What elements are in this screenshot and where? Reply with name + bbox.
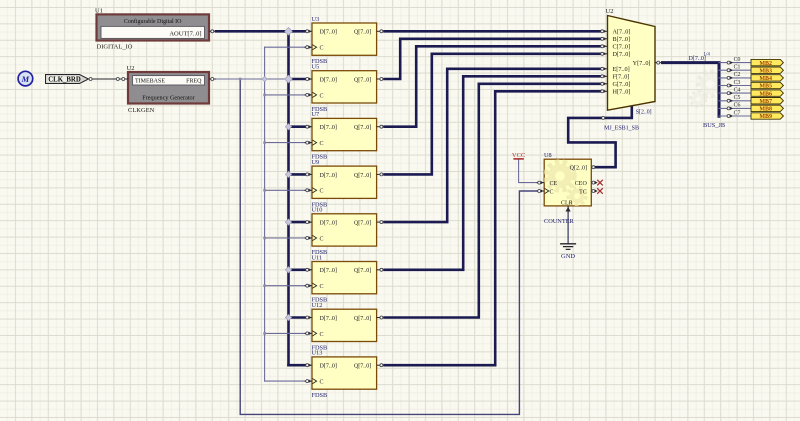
svg-text:U5: U5 <box>312 64 320 71</box>
wire bus tap C4 <box>719 92 751 94</box>
pin TC of counter (no connect) <box>591 190 597 192</box>
sheet symbol U1 Configurable Digital IO <box>95 8 216 51</box>
wire bus tap C3 <box>719 85 751 87</box>
svg-text:CLR: CLR <box>561 200 573 206</box>
pin Q of U5 <box>377 78 385 80</box>
svg-text:C: C <box>320 189 324 195</box>
wire clock net branch to counter C (long loop) <box>240 79 536 414</box>
pin D of U7 <box>305 126 313 128</box>
svg-text:C: C <box>320 380 324 386</box>
wire clock tap to register U12 C <box>265 332 305 334</box>
svg-text:MB9: MB9 <box>759 114 772 120</box>
wire D-bus tap to register U10 D <box>289 221 305 224</box>
pin C of counter <box>537 190 545 192</box>
wire counter CLR to GND <box>567 206 569 244</box>
junction / pin of tap C0 <box>727 61 730 64</box>
pin H of mux <box>600 90 608 92</box>
wire bus tap C6 <box>719 107 751 109</box>
svg-text:MB4: MB4 <box>759 76 772 82</box>
pin CLR of counter <box>567 206 569 213</box>
hierarchy logo icon <box>18 71 33 86</box>
ground GND <box>560 244 576 260</box>
wire bus tap C2 <box>719 77 751 79</box>
svg-text:F[7..0]: F[7..0] <box>613 74 630 81</box>
wire bus tap C0 <box>719 62 751 64</box>
svg-text:MB6: MB6 <box>759 91 772 97</box>
wire clock tap to register U3 C <box>265 46 305 48</box>
svg-text:D[7..0]: D[7..0] <box>320 316 337 322</box>
svg-text:E[7..0]: E[7..0] <box>613 66 630 73</box>
junction clock tap U7 <box>263 141 266 144</box>
svg-text:Q[7..0]: Q[7..0] <box>354 77 371 83</box>
junction clock tap U11 <box>263 284 266 287</box>
port MB4 <box>751 75 783 81</box>
power VCC <box>512 152 525 159</box>
pin D of mux <box>600 53 608 55</box>
wire D-bus tap to register U12 D <box>289 316 305 319</box>
svg-text:FREQ: FREQ <box>186 79 202 85</box>
svg-text:U8: U8 <box>544 152 552 159</box>
junction clock tap U9 <box>263 189 266 192</box>
wire bus tap C5 <box>719 100 751 102</box>
multiplexer U2 MJ_ESB1_SB <box>600 8 663 131</box>
pin C of U7 <box>305 142 313 144</box>
wire D-bus vertical trunk <box>287 31 290 365</box>
svg-text:FDSB: FDSB <box>312 392 328 399</box>
svg-text:CLK_BRD: CLK_BRD <box>48 77 81 84</box>
svg-text:U11: U11 <box>312 254 323 261</box>
register U10 FDSB <box>305 207 385 256</box>
svg-text:DIGITAL_IO: DIGITAL_IO <box>97 44 133 51</box>
wire U11 Q to mux F <box>385 76 600 269</box>
pin C of U3 <box>305 46 313 48</box>
port MB5 <box>751 82 783 88</box>
svg-text:C4: C4 <box>734 87 741 93</box>
pin CEO of counter (no connect) <box>591 182 597 184</box>
register U5 FDSB <box>305 64 385 113</box>
pin FREQ of U2 <box>209 78 216 80</box>
pin C of U9 <box>305 189 313 191</box>
wire D-bus tap to register U5 D <box>289 78 305 81</box>
junction / pin of tap C4 <box>727 92 730 95</box>
pin AOUT of U1 <box>209 30 216 32</box>
svg-text:C3: C3 <box>734 80 741 86</box>
svg-text:A[7..0]: A[7..0] <box>613 29 631 36</box>
pin F of mux <box>600 75 608 77</box>
svg-text:CLKGEN: CLKGEN <box>128 107 155 114</box>
pin B of mux <box>600 38 608 40</box>
wire clock net vertical to register C pins <box>264 47 266 381</box>
port MB9 <box>751 113 783 119</box>
junction / pin of tap C3 <box>727 84 730 87</box>
svg-text:D[7..0]: D[7..0] <box>320 30 337 36</box>
svg-text:C: C <box>320 141 324 147</box>
pin E of mux <box>600 68 608 70</box>
svg-text:TC: TC <box>579 189 587 195</box>
pin TIMEBASE of U2 <box>120 78 128 80</box>
svg-text:Q[7..0]: Q[7..0] <box>354 316 371 322</box>
sheet symbol U2 TIMEBASE Frequency Generator <box>120 65 216 114</box>
svg-text:G[7..0]: G[7..0] <box>613 81 631 88</box>
junction / pin of tap C5 <box>727 99 730 102</box>
wire AOUT bus: U1 AOUT to U3 D and D-bus junction <box>216 30 305 33</box>
junction clock net at FREQ row <box>262 76 267 81</box>
wire U9 Q to mux D <box>385 54 600 175</box>
junction D-bus tap U7 <box>285 124 291 130</box>
svg-text:U10: U10 <box>312 207 323 214</box>
pin D of U12 <box>305 317 313 319</box>
svg-text:Q[7..0]: Q[7..0] <box>354 30 371 36</box>
svg-text:C7: C7 <box>734 110 741 116</box>
register U11 FDSB <box>305 254 385 303</box>
junction D-bus tap U5 <box>285 75 293 83</box>
svg-text:C: C <box>320 93 324 99</box>
port MB2 <box>751 59 783 65</box>
pin C of U5 <box>305 94 313 96</box>
svg-text:D[7..0]: D[7..0] <box>320 268 337 274</box>
svg-text:CE: CE <box>550 181 558 187</box>
svg-text:D[7..0]: D[7..0] <box>320 77 337 83</box>
wire U12 Q to mux G <box>385 84 600 318</box>
wire S-bus: counter Q[2..0] to mux S <box>568 106 632 167</box>
svg-text:C: C <box>320 46 324 52</box>
pin D of U5 <box>305 78 313 80</box>
svg-text:MB3: MB3 <box>759 68 772 74</box>
svg-text:D[7..0]: D[7..0] <box>320 364 337 370</box>
wire clock tap to register U13 C <box>265 380 305 382</box>
pin Q of U12 <box>377 317 385 319</box>
svg-text:U13: U13 <box>312 350 323 357</box>
svg-text:Q[7..0]: Q[7..0] <box>354 221 371 227</box>
register U12 FDSB <box>305 302 385 351</box>
junction clock tap U12 <box>263 332 266 335</box>
svg-text:BUS_JB: BUS_JB <box>703 122 725 129</box>
junction AOUT / D-bus <box>285 27 293 35</box>
svg-text:S[2..0]: S[2..0] <box>636 109 652 115</box>
svg-text:Q[7..0]: Q[7..0] <box>354 364 371 370</box>
svg-text:COUNTER: COUNTER <box>544 218 575 225</box>
wire U5 Q to mux B <box>385 39 600 79</box>
pin D of U10 <box>305 221 313 223</box>
pin D of U3 <box>305 30 313 32</box>
port MB7 <box>751 98 783 105</box>
wire clock tap to register U5 C <box>265 94 305 96</box>
wire U7 Q to mux C <box>385 46 600 126</box>
watermark gear inside counter <box>546 162 586 205</box>
junction clock tap U10 <box>263 237 266 240</box>
junction / pin of tap C6 <box>727 107 730 110</box>
svg-text:VCC: VCC <box>512 152 525 159</box>
svg-text:D[7..0]: D[7..0] <box>320 173 337 179</box>
register U9 FDSB <box>305 159 385 208</box>
svg-text:AOUT[7..0]: AOUT[7..0] <box>169 31 201 38</box>
counter U8 <box>537 152 603 225</box>
svg-text:C0: C0 <box>734 57 741 63</box>
junction D-bus tap U10 <box>285 219 291 225</box>
svg-text:Q[7..0]: Q[7..0] <box>354 268 371 274</box>
svg-text:TIMEBASE: TIMEBASE <box>135 79 165 85</box>
wire D-bus tap to register U11 D <box>289 268 305 271</box>
svg-text:MB5: MB5 <box>759 84 772 90</box>
svg-text:D[7..0]: D[7..0] <box>613 51 631 58</box>
svg-text:H[7..0]: H[7..0] <box>613 89 631 96</box>
pin Q of counter <box>591 166 595 168</box>
junction / pin of tap C1 <box>727 69 730 72</box>
pin Q of U9 <box>377 173 385 175</box>
svg-text:GND: GND <box>561 253 575 260</box>
svg-text:MB7: MB7 <box>759 99 772 105</box>
junction clock branch corner <box>239 78 242 81</box>
svg-text:Configurable Digital IO: Configurable Digital IO <box>124 18 182 25</box>
pin C of U12 <box>305 332 313 334</box>
svg-text:C: C <box>320 284 324 290</box>
svg-text:U12: U12 <box>312 302 323 309</box>
junction / pin of tap C2 <box>727 76 730 79</box>
pin C of U10 <box>305 237 313 239</box>
svg-text:U9: U9 <box>312 159 320 166</box>
svg-text:B[7..0]: B[7..0] <box>613 36 631 43</box>
wire D-bus tap to register U7 D <box>289 125 305 128</box>
svg-text:C: C <box>320 332 324 338</box>
wire clock tap to register U7 C <box>265 142 305 144</box>
pin C of U13 <box>305 380 313 382</box>
register U13 FDSB <box>305 350 385 399</box>
svg-text:MB2: MB2 <box>759 61 772 67</box>
wire CLK_BRD port to U2 TIMEBASE <box>89 78 121 80</box>
pin Q of U10 <box>377 221 385 223</box>
svg-text:D[7..0]: D[7..0] <box>320 125 337 131</box>
port MB3 <box>751 67 783 73</box>
port MB6 <box>751 90 783 96</box>
pin CE of counter <box>537 182 545 184</box>
junction clock tap U5 <box>263 94 266 97</box>
port CLK_BRD <box>46 75 120 84</box>
junction D-bus tap U11 <box>285 267 291 273</box>
pin D of U9 <box>305 173 313 175</box>
pin Q of U11 <box>377 269 385 271</box>
wire clock tap to register U9 C <box>265 189 305 191</box>
pin Q of U3 <box>377 30 385 32</box>
svg-text:U7: U7 <box>312 111 320 118</box>
watermark gear (background, near output bus) <box>691 72 722 106</box>
wire clock tap to register U11 C <box>265 285 305 287</box>
svg-text:C6: C6 <box>734 103 741 109</box>
pin C of mux <box>600 45 608 47</box>
wire bus tap C7 <box>719 115 751 117</box>
wire VCC to counter CE <box>519 159 537 183</box>
svg-text:1/4: 1/4 <box>704 53 711 58</box>
wire U10 Q to mux E <box>385 69 600 222</box>
register U3 FDSB <box>305 16 385 65</box>
svg-text:C1: C1 <box>734 65 741 71</box>
pin Q of U13 <box>377 364 385 366</box>
pin G of mux <box>600 83 608 85</box>
svg-text:U3: U3 <box>312 16 320 23</box>
wire D-bus tap to register U9 D <box>289 173 305 176</box>
wire FREQ output (clock net) horizontal <box>216 78 289 80</box>
svg-text:MB8: MB8 <box>759 107 772 113</box>
register U7 FDSB <box>305 111 385 160</box>
wire U3 Q to mux A <box>385 30 600 33</box>
junction D-bus tap U9 <box>285 171 291 177</box>
pin A of mux <box>600 30 608 32</box>
svg-text:C: C <box>550 189 554 195</box>
port MB8 <box>751 105 783 111</box>
svg-text:D[7..0]: D[7..0] <box>320 221 337 227</box>
wire clock tap to register U10 C <box>265 237 305 239</box>
svg-text:CEO: CEO <box>575 181 588 187</box>
pin D of U11 <box>305 269 313 271</box>
svg-text:M: M <box>21 74 30 84</box>
svg-text:Q[7..0]: Q[7..0] <box>354 125 371 131</box>
pin C of U11 <box>305 285 313 287</box>
svg-text:Q[7..0]: Q[7..0] <box>354 173 371 179</box>
junction / pin of tap C7 <box>727 115 730 118</box>
svg-text:C: C <box>320 236 324 242</box>
pin D of U13 <box>305 364 313 366</box>
svg-text:U2: U2 <box>606 8 614 15</box>
pin Q of U7 <box>377 126 385 128</box>
wire U13 Q to mux H <box>385 91 600 365</box>
svg-text:C5: C5 <box>734 95 741 101</box>
svg-text:C2: C2 <box>734 72 741 78</box>
svg-text:MJ_ESB1_SB: MJ_ESB1_SB <box>604 125 639 131</box>
wire bus tap C1 <box>719 69 751 71</box>
svg-text:Q[2..0]: Q[2..0] <box>570 166 587 172</box>
wire Y-bus: mux Y output to vertical bus <box>663 63 720 117</box>
svg-text:Y[7..0]: Y[7..0] <box>633 60 651 67</box>
wire D-bus tap to register U13 D <box>289 364 305 367</box>
svg-text:C[7..0]: C[7..0] <box>613 44 631 51</box>
svg-text:Frequency Generator: Frequency Generator <box>142 94 194 101</box>
junction D-bus tap U12 <box>285 314 291 320</box>
